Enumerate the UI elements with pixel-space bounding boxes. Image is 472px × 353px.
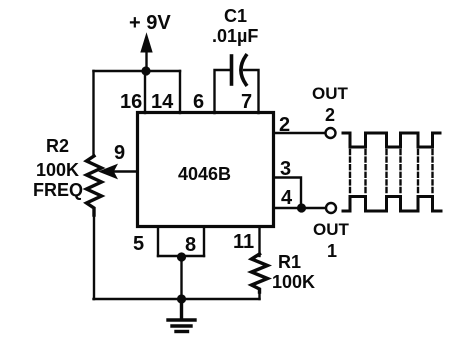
- capacitor C1: [232, 56, 247, 85]
- pin 11 label: [233, 231, 254, 253]
- svg-text:16: 16: [120, 91, 142, 113]
- node OUT 1 terminal circle: [326, 203, 336, 213]
- svg-text:C1: C1: [224, 6, 247, 26]
- ground symbol: [168, 299, 195, 332]
- node OUT 2 label: [312, 84, 349, 125]
- wire pin 3 to pin 4: [274, 178, 302, 209]
- ground bus wire: [94, 298, 260, 300]
- wire R1 to ground bus: [258, 290, 260, 299]
- node pin5/8 junction: [177, 252, 186, 261]
- wire C1 to pin 7: [244, 70, 259, 113]
- svg-text:5: 5: [133, 233, 144, 255]
- wire R2 wiper to pin 9: [112, 170, 138, 172]
- svg-text:R1: R1: [278, 252, 301, 272]
- node ground junction: [177, 294, 186, 303]
- svg-text:11: 11: [233, 231, 254, 253]
- svg-text:100K: 100K: [36, 160, 79, 180]
- pin 2 label: [279, 114, 290, 136]
- wire arrow to junction: [145, 50, 147, 71]
- pin 6 label: [193, 91, 204, 113]
- resistor R1 zigzag: [252, 254, 268, 292]
- node OUT 1 label: [313, 220, 350, 261]
- wire pin5-pin8 join: [158, 255, 204, 257]
- svg-text:OUT: OUT: [313, 220, 350, 239]
- capacitor C1 labels: [212, 6, 258, 46]
- svg-text:.01µF: .01µF: [212, 26, 258, 46]
- node junction +9V: [141, 66, 150, 75]
- node +9V label: [129, 12, 171, 34]
- waveform OUT2 square wave: [343, 133, 440, 147]
- R2 wiper arrowhead: [100, 165, 117, 178]
- wire pin 8: [203, 227, 205, 256]
- resistor R1 label: [272, 252, 315, 292]
- wire R2 bottom to ground bus: [93, 213, 95, 299]
- wire rail down to R2 top: [92, 71, 94, 156]
- waveform phase dashed lines: [350, 150, 433, 193]
- wire pin 5: [157, 227, 159, 256]
- wire +9V horizontal rail: [94, 70, 181, 72]
- wire pin 2 to OUT 2 terminal: [274, 132, 326, 134]
- resistor R2 label: [33, 136, 83, 200]
- wire pin16 to +9V: [144, 71, 146, 113]
- svg-text:14: 14: [151, 91, 174, 113]
- svg-text:6: 6: [193, 91, 204, 113]
- svg-text:R2: R2: [46, 136, 69, 156]
- svg-text:+ 9V: + 9V: [129, 12, 171, 34]
- svg-text:FREQ: FREQ: [33, 180, 83, 200]
- resistor R2 zigzag: [87, 156, 102, 215]
- pin 9 label: [114, 142, 125, 164]
- svg-text:1: 1: [327, 241, 337, 261]
- waveform OUT1 square wave: [343, 197, 441, 212]
- svg-text:4046B: 4046B: [178, 164, 231, 184]
- pin 5 label: [133, 233, 144, 255]
- svg-text:8: 8: [185, 234, 196, 256]
- svg-text:2: 2: [325, 105, 335, 125]
- wire pin 4 to OUT 1 terminal: [274, 207, 326, 209]
- svg-text:9: 9: [114, 142, 125, 164]
- svg-text:4: 4: [281, 187, 293, 209]
- pin 16 label: [120, 91, 142, 113]
- op-amp U1 4046B IC body: [138, 113, 274, 227]
- pin 7 label: [241, 91, 252, 113]
- pin 3 label: [280, 158, 291, 180]
- svg-text:7: 7: [241, 91, 252, 113]
- wire junction to ground bus: [180, 257, 182, 299]
- node pin3/4 junction: [297, 203, 306, 212]
- node OUT 2 terminal circle: [326, 128, 336, 138]
- svg-text:OUT: OUT: [312, 84, 349, 103]
- pin 4 label: [281, 187, 293, 209]
- wire pin14 to +9V: [179, 71, 181, 113]
- +9V arrow: [141, 34, 152, 52]
- pin 8 label: [185, 234, 196, 256]
- pin 14 label: [151, 91, 174, 113]
- wire pin 11 to R1: [258, 227, 260, 256]
- wire pin 6 to C1: [215, 70, 231, 113]
- svg-text:100K: 100K: [272, 272, 315, 292]
